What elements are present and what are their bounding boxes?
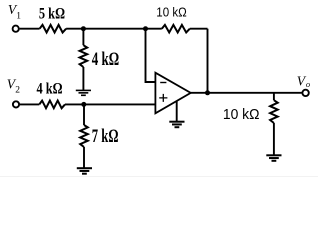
wire V1 to R5k	[20, 28, 40, 30]
ground (op-amp)	[169, 121, 184, 123]
ground (4k branch)	[76, 89, 91, 91]
svg-text:2: 2	[15, 86, 20, 96]
wire R4k to node C	[65, 103, 84, 105]
resistor 5 kOhm	[40, 25, 67, 33]
svg-text:4 kΩ: 4 kΩ	[92, 50, 119, 70]
wire load branch down	[273, 93, 275, 100]
resistor 4 kOhm vertical	[80, 45, 88, 67]
ground (7k branch)	[77, 167, 92, 169]
op-amp plus sign	[159, 94, 167, 102]
wire feedback vertical down to output node	[207, 29, 209, 93]
op-amp minus sign	[160, 82, 166, 84]
terminal V2	[13, 101, 19, 107]
wire R5k to node A	[66, 28, 83, 30]
resistor 4 kOhm horizontal	[39, 101, 65, 109]
wire node A to node B	[83, 28, 145, 30]
wire load to ground	[273, 123, 275, 155]
node A junction dot	[81, 26, 86, 31]
svg-text:10 kΩ: 10 kΩ	[156, 5, 186, 19]
wire node B down to minus input	[146, 29, 156, 82]
op-amp ground stem	[176, 101, 178, 121]
scan artifact line	[0, 176, 318, 178]
svg-text:o: o	[306, 79, 310, 89]
resistor 10 kOhm feedback	[162, 25, 190, 33]
svg-text:4 kΩ: 4 kΩ	[37, 81, 63, 98]
wire V2 to R4k	[20, 103, 39, 105]
output node junction dot	[205, 90, 210, 95]
wire R10k to top-right corner	[190, 28, 208, 30]
resistor 10 kOhm load	[270, 100, 278, 123]
wire node B to R10k feedback	[146, 28, 162, 30]
wire node C down	[83, 104, 85, 125]
node B junction dot	[143, 26, 148, 31]
wire 7k to ground	[83, 147, 85, 168]
resistor 7 kOhm	[80, 125, 88, 147]
node C junction dot	[81, 102, 86, 107]
svg-text:5 kΩ: 5 kΩ	[39, 6, 65, 23]
svg-text:1: 1	[16, 11, 21, 21]
wire node A down	[82, 29, 84, 46]
wire 4k to ground	[82, 67, 84, 90]
op-amp triangle	[155, 73, 190, 114]
wire node C to plus input	[84, 103, 156, 105]
terminal Vo	[302, 90, 308, 96]
wire op-amp output to Vo	[191, 92, 302, 94]
terminal V1	[13, 26, 19, 32]
svg-text:10 kΩ: 10 kΩ	[223, 106, 260, 123]
svg-text:7 kΩ: 7 kΩ	[92, 127, 119, 147]
ground (load)	[266, 154, 281, 156]
